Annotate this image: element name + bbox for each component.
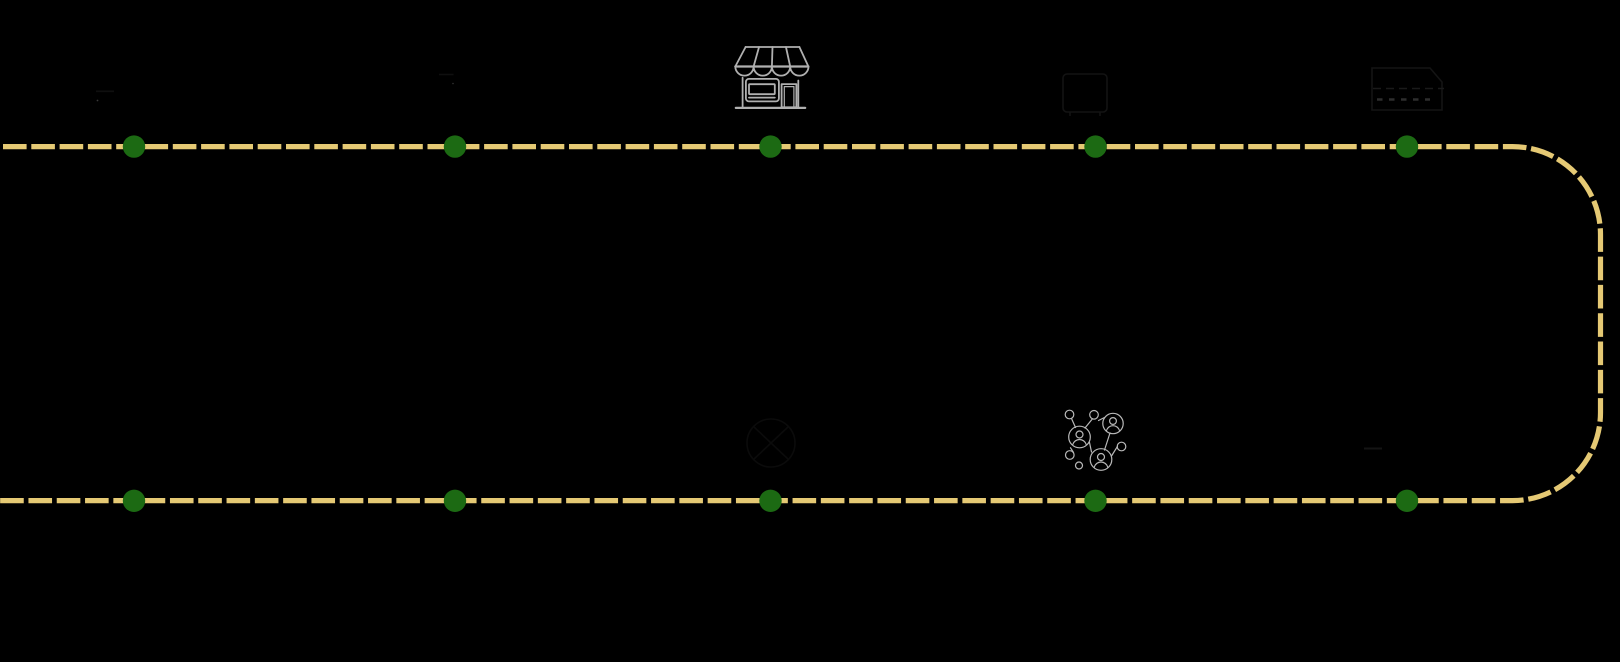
small circle top-mid — [1090, 411, 1099, 420]
awning scallops — [735, 67, 808, 76]
window opening — [749, 84, 775, 94]
icon: storefront above node A3 — [735, 47, 808, 108]
node A3 — [759, 135, 781, 157]
node A4 — [1084, 135, 1106, 157]
awning ribs — [754, 47, 791, 67]
small circle top-left — [1065, 410, 1074, 419]
body right wall — [797, 81, 799, 108]
node B1 — [123, 490, 145, 512]
faint tick above node B5 — [1364, 448, 1382, 450]
node B4 — [1084, 490, 1106, 512]
node A2 — [444, 135, 466, 157]
awning bottom bar — [735, 65, 808, 67]
node A5 — [1396, 135, 1418, 157]
awning top edge — [746, 46, 800, 48]
window frame — [746, 79, 779, 102]
faint ghost above node A2 — [439, 75, 454, 85]
door inner — [784, 87, 794, 108]
connectors — [1071, 418, 1118, 457]
ground line — [736, 107, 805, 109]
awning right slant — [799, 47, 808, 67]
big circle mid-left with person — [1069, 426, 1091, 448]
body left wall — [742, 78, 744, 108]
small circle right — [1117, 442, 1126, 451]
icon: faint ghost above node A4 — [1063, 74, 1107, 116]
window slat — [749, 97, 775, 99]
faint ghost above node A1 — [96, 91, 114, 101]
icon: people network above node B4 — [1065, 410, 1126, 470]
icon: faint ghost above node A5 (van with dashed route) — [1372, 68, 1444, 110]
big circle upper-right with person — [1103, 413, 1123, 433]
door frame — [782, 84, 797, 107]
big circle bottom with person — [1090, 449, 1112, 471]
node B3 — [759, 490, 781, 512]
small circle bottom-left — [1066, 451, 1075, 460]
small circle lower-left tiny — [1076, 462, 1083, 469]
node A1 — [123, 135, 145, 157]
wire: dashed route loop — [0, 147, 1601, 501]
node B2 — [444, 490, 466, 512]
awning left slant — [735, 47, 745, 67]
icon: faint ghost above node B3 — [747, 419, 795, 467]
node B5 — [1396, 490, 1418, 512]
